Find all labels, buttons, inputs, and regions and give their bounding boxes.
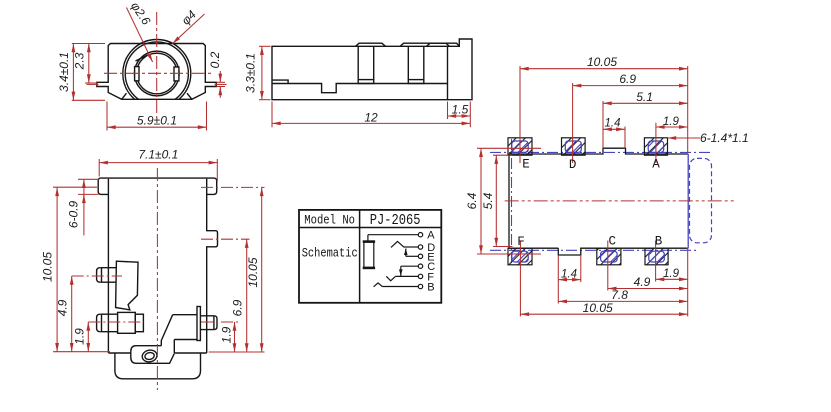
- svg-text:7.8: 7.8: [611, 288, 628, 302]
- svg-text:1.9: 1.9: [220, 326, 234, 343]
- svg-text:6.4: 6.4: [465, 192, 479, 209]
- svg-text:1.9: 1.9: [663, 116, 680, 128]
- svg-text:1.9: 1.9: [73, 328, 87, 345]
- svg-text:PJ-2065: PJ-2065: [370, 213, 421, 229]
- svg-text:3.4±0.1: 3.4±0.1: [57, 52, 71, 92]
- svg-text:1.9: 1.9: [663, 268, 680, 280]
- svg-text:E: E: [522, 158, 530, 172]
- svg-text:7.1±0.1: 7.1±0.1: [138, 148, 178, 162]
- svg-text:10.05: 10.05: [246, 257, 260, 287]
- svg-text:5.1: 5.1: [636, 90, 653, 104]
- svg-text:4.9: 4.9: [56, 299, 70, 316]
- svg-text:B: B: [655, 235, 663, 249]
- svg-text:10.05: 10.05: [583, 301, 613, 315]
- svg-text:C: C: [609, 235, 617, 249]
- svg-text:10.05: 10.05: [587, 55, 617, 69]
- svg-text:3.3±0.1: 3.3±0.1: [244, 53, 258, 93]
- svg-text:2.3: 2.3: [73, 52, 87, 70]
- svg-text:6-1.4*1.1: 6-1.4*1.1: [700, 131, 749, 145]
- svg-text:6-0.9: 6-0.9: [67, 201, 81, 229]
- svg-text:5.4: 5.4: [481, 192, 495, 209]
- svg-text:10.05: 10.05: [41, 252, 55, 282]
- svg-text:4.9: 4.9: [634, 275, 651, 289]
- svg-text:Schematic: Schematic: [302, 246, 358, 261]
- svg-text:A: A: [652, 158, 660, 172]
- svg-text:6.9: 6.9: [619, 72, 636, 86]
- svg-text:6.9: 6.9: [231, 299, 245, 316]
- svg-text:B: B: [427, 282, 434, 294]
- svg-text:1.4: 1.4: [605, 117, 621, 129]
- svg-text:5.9±0.1: 5.9±0.1: [137, 114, 177, 128]
- svg-text:12: 12: [364, 111, 378, 125]
- svg-text:Model No: Model No: [304, 213, 355, 228]
- svg-text:1.4: 1.4: [561, 268, 577, 280]
- svg-text:F: F: [517, 235, 525, 249]
- svg-text:A: A: [427, 230, 435, 242]
- svg-text:1.5: 1.5: [452, 103, 469, 117]
- svg-text:D: D: [569, 158, 577, 172]
- svg-text:0.2: 0.2: [208, 51, 222, 68]
